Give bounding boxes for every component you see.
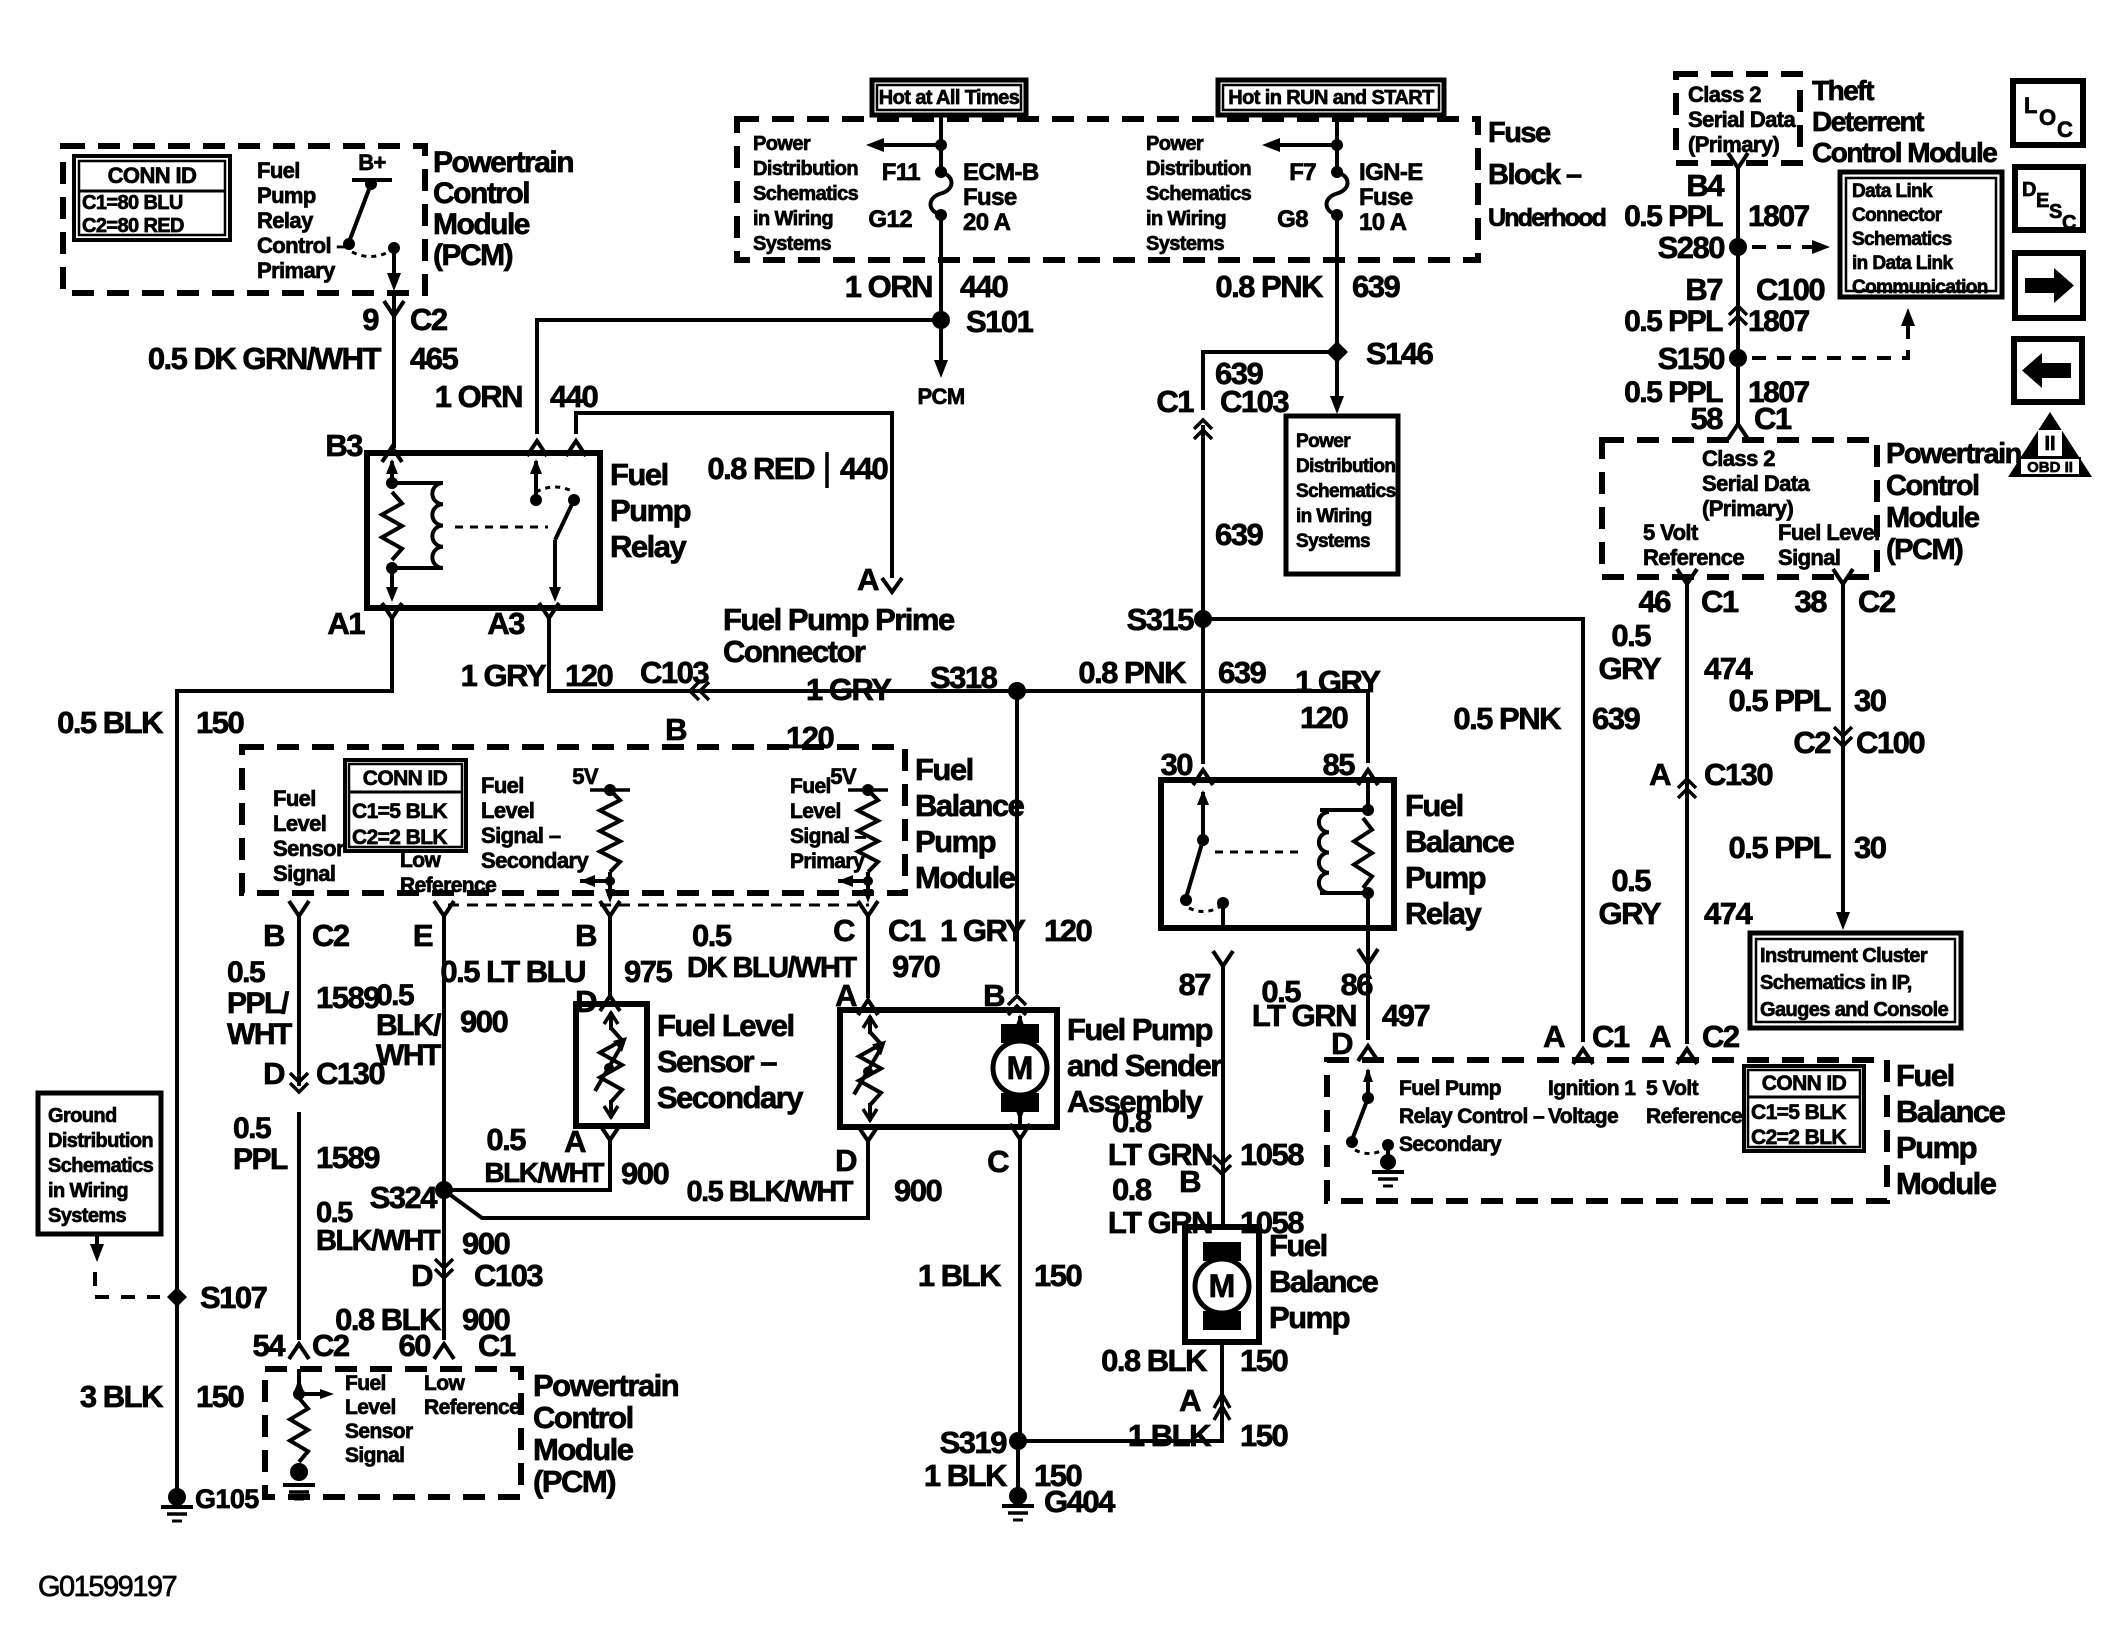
secondary switch blade [1352, 1098, 1368, 1140]
svg-text:Balance: Balance [1405, 824, 1515, 859]
svg-text:Secondary: Secondary [481, 848, 589, 873]
5V stub (primary) [848, 788, 888, 792]
svg-text:Fuel: Fuel [790, 775, 831, 798]
svg-text:1589: 1589 [316, 980, 380, 1015]
fuse IGN-E 10A [1327, 172, 1348, 215]
svg-text:Control –: Control – [257, 233, 349, 258]
svg-text:C1: C1 [1701, 584, 1739, 619]
svg-text:B7: B7 [1685, 272, 1722, 307]
wire fuel balance pump to S319 [1018, 1342, 1222, 1441]
svg-text:Balance: Balance [1896, 1094, 2006, 1129]
5V resistor tail (secondary) [608, 872, 612, 893]
relay coil top node [386, 477, 398, 489]
svg-text:Distribution: Distribution [1296, 456, 1395, 477]
ground G105 symbol [161, 1505, 193, 1509]
svg-text:0.8 RED: 0.8 RED [707, 451, 815, 486]
svg-text:3 BLK: 3 BLK [80, 1379, 164, 1414]
svg-text:Data Link: Data Link [1852, 181, 1933, 202]
wire 0.5 BLK/WHT 900 (E) [442, 916, 446, 1340]
wire 1 GRY 120 (S318 to sender B) [1015, 691, 1019, 994]
5V resistor bottom node (secondary) [605, 876, 615, 886]
svg-text:C103: C103 [474, 1258, 543, 1293]
svg-text:1589: 1589 [316, 1140, 380, 1175]
svg-text:Fuel Pump: Fuel Pump [1067, 1012, 1213, 1047]
svg-text:Serial Data: Serial Data [1702, 471, 1810, 496]
svg-text:Fuel Level: Fuel Level [1778, 520, 1880, 545]
wire S319 to G404 [1016, 1441, 1020, 1496]
svg-text:Relay: Relay [257, 208, 314, 233]
fuse ECM-B 20A [931, 172, 952, 215]
wire 0.5 PPL 30 [1841, 584, 1845, 924]
svg-text:C130: C130 [1704, 757, 1772, 792]
svg-text:10 A: 10 A [1359, 209, 1407, 236]
svg-text:O: O [2039, 105, 2056, 130]
svg-text:Low: Low [400, 849, 441, 872]
ground G105 dot [168, 1488, 186, 1506]
svg-text:(Primary): (Primary) [1688, 132, 1779, 157]
arrow left at F11 [866, 138, 884, 152]
pcm arrow right stub [299, 1392, 322, 1396]
svg-text:Level: Level [273, 811, 326, 836]
secondary switch pivot [1362, 1092, 1374, 1104]
svg-text:Pump: Pump [1269, 1300, 1350, 1335]
svg-text:0.5 PPL: 0.5 PPL [1729, 830, 1831, 865]
PCM right dashed box [1602, 440, 1877, 577]
5V resistor bottom node (primary) [863, 876, 873, 886]
5V stub (secondary) [590, 788, 630, 792]
svg-text:A1: A1 [327, 606, 365, 641]
svg-text:Schematics: Schematics [753, 183, 859, 205]
svg-text:C100: C100 [1856, 725, 1924, 760]
wire 0.5 GRY 474 [1685, 584, 1689, 1044]
relay2 coil resistor [1354, 818, 1372, 888]
svg-text:E: E [2036, 190, 2049, 212]
svg-text:Systems: Systems [1296, 531, 1370, 552]
pcm arrow up [294, 1378, 304, 1392]
connector C130 chevrons right [1678, 779, 1696, 798]
svg-text:Level: Level [790, 800, 841, 823]
svg-text:1 GRY: 1 GRY [940, 913, 1026, 948]
arrow stub left (F7) [1276, 143, 1337, 147]
signal arrow left (primary) [838, 875, 853, 887]
secondary ground symbol [1372, 1170, 1404, 1174]
connector B inline (1058) [1213, 1155, 1231, 1174]
svg-text:C1=5 BLK: C1=5 BLK [1751, 1101, 1846, 1124]
svg-text:PPL: PPL [233, 1143, 288, 1176]
svg-text:970: 970 [892, 949, 939, 984]
svg-text:Powertrain: Powertrain [433, 146, 573, 179]
svg-text:474: 474 [1704, 896, 1753, 931]
svg-text:Ignition 1: Ignition 1 [1548, 1077, 1636, 1100]
connector C100 chevrons (B7) [1729, 306, 1747, 325]
svg-text:Communication: Communication [1852, 277, 1988, 298]
svg-text:Pump: Pump [610, 493, 691, 528]
svg-text:Schematics: Schematics [1146, 183, 1252, 205]
svg-text:GRY: GRY [1598, 896, 1661, 931]
svg-text:5 Volt: 5 Volt [1646, 1077, 1699, 1100]
svg-text:C2: C2 [1702, 1019, 1739, 1054]
ground G404 dot [1009, 1487, 1027, 1505]
fuel level sensor secondary box [576, 1004, 647, 1126]
svg-text:Class 2: Class 2 [1702, 446, 1775, 471]
svg-text:(PCM): (PCM) [433, 239, 513, 272]
svg-text:Distribution: Distribution [753, 158, 858, 180]
svg-text:Fuse: Fuse [1359, 184, 1413, 211]
svg-text:440: 440 [840, 451, 887, 486]
CONN ID right header sep [1748, 1096, 1860, 1099]
svg-text:Pump: Pump [257, 183, 316, 208]
svg-text:A3: A3 [487, 606, 525, 641]
svg-text:0.5: 0.5 [376, 979, 414, 1012]
svg-text:0.5 PPL: 0.5 PPL [1624, 305, 1723, 338]
arrow down (primary pin) [863, 889, 873, 903]
svg-text:Module: Module [533, 1432, 634, 1467]
wire 0.5 DK BLU/WHT 970 [866, 916, 870, 998]
svg-text:Control: Control [1886, 470, 1979, 502]
svg-text:C1: C1 [1592, 1019, 1630, 1054]
svg-text:C130: C130 [316, 1056, 384, 1091]
svg-text:38: 38 [1795, 584, 1828, 619]
wire 0.5 PNK 639 (S315 right) [1203, 619, 1583, 1042]
connector C103 chevrons (bottom) [435, 1259, 453, 1278]
wire 639 to C103 [1203, 352, 1337, 410]
connector C103 chevrons [1194, 420, 1212, 439]
svg-text:C2=2 BLK: C2=2 BLK [352, 826, 447, 849]
connector B C2 [289, 901, 309, 916]
svg-text:0.8 PNK: 0.8 PNK [1215, 269, 1324, 304]
relay2 switch pin [1201, 792, 1205, 840]
connector B3 [382, 447, 402, 462]
wire pin 87 to fuel balance pump [1221, 966, 1225, 1227]
svg-text:D: D [1331, 1026, 1353, 1061]
fuel pump relay box [367, 453, 600, 608]
wire pin 86 down [1366, 928, 1370, 1040]
arrow stub left (F11) [880, 143, 941, 147]
svg-text:(PCM): (PCM) [1886, 534, 1963, 566]
connector A arrow 2 [1214, 1406, 1230, 1420]
svg-text:Fuel: Fuel [1269, 1228, 1327, 1263]
relay2 coil pin top [1366, 780, 1370, 810]
svg-text:A: A [857, 562, 879, 597]
pcm fuel level sensor wire [297, 1369, 301, 1394]
svg-text:PCM: PCM [917, 384, 964, 409]
svg-text:S146: S146 [1366, 336, 1434, 371]
svg-text:DK BLU/WHT: DK BLU/WHT [687, 952, 857, 984]
svg-text:D: D [835, 1143, 857, 1178]
svg-text:C100: C100 [1756, 272, 1824, 307]
wire secondary A to S324 [444, 1140, 610, 1190]
svg-text:440: 440 [960, 269, 1007, 304]
svg-text:1 BLK: 1 BLK [1128, 1418, 1212, 1453]
svg-text:30: 30 [1161, 747, 1193, 782]
svg-text:Control: Control [433, 177, 529, 210]
ground distribution schematics box [38, 1093, 161, 1234]
svg-text:A: A [1543, 1019, 1565, 1054]
svg-text:Fuel Pump: Fuel Pump [1399, 1077, 1501, 1100]
svg-text:C: C [987, 1144, 1009, 1179]
right arrow icon [2025, 278, 2054, 293]
svg-text:Pump: Pump [915, 824, 996, 859]
Hot at All Times box [872, 80, 1026, 115]
wire 0.8 RED 440 [576, 413, 892, 578]
svg-text:B4: B4 [1686, 168, 1725, 203]
svg-text:B: B [575, 918, 596, 953]
svg-text:in Wiring: in Wiring [1146, 208, 1226, 230]
svg-text:Ground: Ground [48, 1105, 117, 1127]
junction at F11 arrow [935, 139, 947, 151]
svg-text:150: 150 [196, 705, 243, 740]
svg-text:C103: C103 [1220, 384, 1289, 419]
svg-text:II: II [2044, 433, 2055, 455]
svg-text:F11: F11 [882, 159, 920, 186]
svg-text:Control: Control [533, 1400, 633, 1435]
svg-text:in Wiring: in Wiring [48, 1180, 128, 1202]
fuel pump feed stub [1018, 1016, 1022, 1026]
relay switch common arrow up [530, 459, 542, 474]
fuel pump out arrow down [1015, 1108, 1025, 1122]
svg-text:900: 900 [621, 1156, 668, 1191]
svg-text:S280: S280 [1658, 230, 1725, 265]
svg-text:Balance: Balance [915, 788, 1025, 823]
relay2 blade end dot [1180, 894, 1192, 906]
svg-text:Fuse: Fuse [963, 184, 1017, 211]
B+ bar [352, 178, 392, 182]
svg-text:and Sender: and Sender [1067, 1048, 1222, 1083]
svg-text:Sensor: Sensor [345, 1420, 413, 1443]
svg-text:Block –: Block – [1488, 159, 1582, 191]
svg-text:D: D [411, 1258, 433, 1293]
pcm node dot [293, 1388, 305, 1400]
relay switch common dot [530, 494, 542, 506]
wire S101 to fuel pump relay [537, 320, 941, 434]
svg-text:Schematics: Schematics [1852, 229, 1952, 250]
relay2 switch dashed arc [1189, 906, 1221, 912]
pcm arrow right [320, 1389, 334, 1399]
svg-text:OBD II: OBD II [2027, 459, 2073, 476]
wire B+ switch to pin 9 [392, 248, 396, 276]
B+ pin dot [365, 178, 377, 190]
svg-text:B+: B+ [358, 150, 386, 175]
svg-text:639: 639 [1215, 517, 1263, 552]
svg-text:Control Module: Control Module [1812, 137, 1997, 168]
svg-text:C2=2 BLK: C2=2 BLK [1751, 1126, 1846, 1149]
relay2 actuation dashed link [1215, 851, 1300, 854]
svg-text:C: C [2057, 117, 2073, 142]
svg-text:0.5: 0.5 [1611, 618, 1651, 653]
relay2 switch arrow up [1197, 790, 1209, 805]
svg-text:CONN ID: CONN ID [108, 163, 197, 188]
connector C103 inline [690, 682, 709, 700]
svg-text:B: B [1179, 1164, 1200, 1199]
connector A (sender) [858, 1000, 878, 1015]
relay coil pin [390, 461, 394, 483]
svg-text:474: 474 [1704, 651, 1753, 686]
svg-text:Hot at All Times: Hot at All Times [879, 87, 1020, 109]
svg-text:CONN ID: CONN ID [363, 767, 448, 790]
connector pin 85 [1358, 770, 1378, 785]
svg-text:Power: Power [1146, 133, 1204, 155]
svg-text:Fuel: Fuel [610, 457, 668, 492]
connector B4 [1728, 153, 1748, 168]
svg-text:C2: C2 [312, 918, 349, 953]
svg-text:Assembly: Assembly [1067, 1084, 1204, 1119]
svg-text:M: M [1007, 1050, 1034, 1086]
fuel level sensor primary resistor arrows [868, 1016, 872, 1034]
left arrow icon box [2014, 339, 2082, 402]
svg-text:Balance: Balance [1269, 1264, 1379, 1299]
svg-text:1 ORN: 1 ORN [435, 379, 522, 414]
svg-text:S: S [2049, 201, 2062, 223]
svg-text:Module: Module [433, 208, 530, 241]
svg-text:A: A [1649, 1019, 1671, 1054]
relay resistor [382, 492, 402, 560]
ground dist arrow down [90, 1244, 104, 1262]
relay2 coil top bar [1320, 808, 1368, 812]
connector A C1 (PNK) [1573, 1049, 1593, 1064]
svg-text:C1: C1 [1156, 384, 1194, 419]
svg-text:Underhood: Underhood [1488, 204, 1606, 232]
svg-text:0.5 PPL: 0.5 PPL [1624, 200, 1723, 233]
signal arrow stub (primary) [838, 879, 868, 883]
svg-text:Hot in RUN and START: Hot in RUN and START [1228, 87, 1434, 109]
svg-text:Power: Power [1296, 431, 1351, 452]
switch output dot [388, 242, 400, 254]
connector A arrow [1214, 1394, 1230, 1408]
svg-text:Fuel: Fuel [273, 786, 316, 811]
svg-text:0.8 PNK: 0.8 PNK [1078, 655, 1187, 690]
Hot in RUN and START box [1218, 80, 1444, 115]
svg-text:Primary: Primary [257, 258, 336, 283]
svg-text:Pump: Pump [1405, 860, 1486, 895]
svg-text:0.5 BLK/WHT: 0.5 BLK/WHT [686, 1176, 853, 1208]
arrow into instrument cluster [1836, 912, 1850, 930]
svg-text:Systems: Systems [48, 1205, 127, 1227]
svg-text:120: 120 [1300, 700, 1347, 735]
svg-text:5V: 5V [830, 764, 857, 789]
connector E [434, 901, 454, 916]
connector D (secondary sensor) [600, 996, 620, 1011]
relay actuation dashed link [455, 526, 548, 529]
relay2 coil pin bottom [1366, 893, 1370, 928]
svg-text:Fuel: Fuel [257, 158, 300, 183]
fuel pump and sender assembly box [840, 1010, 1057, 1127]
svg-text:C2: C2 [1858, 584, 1895, 619]
svg-text:1 BLK: 1 BLK [918, 1258, 1002, 1293]
5V node (secondary) [604, 784, 616, 796]
fuel balance pump motor [1203, 1242, 1241, 1261]
connector A (secondary bottom) [600, 1125, 620, 1140]
wire 0.8 RED separator tick [825, 452, 829, 488]
connector B (sender) [1008, 996, 1026, 1015]
svg-text:Voltage: Voltage [1548, 1105, 1618, 1128]
connector C130 chevrons [290, 1073, 308, 1092]
svg-text:C103: C103 [640, 655, 709, 690]
svg-text:Reference: Reference [1646, 1105, 1742, 1128]
svg-text:Signal: Signal [345, 1444, 404, 1467]
splice S315 [1194, 610, 1212, 628]
svg-text:Deterrent: Deterrent [1812, 106, 1924, 137]
data link connector schematics box [1840, 172, 2002, 297]
DESC icon box [2015, 167, 2083, 230]
wire 1 GRY 120 (A3 to relay2) [549, 618, 1368, 763]
fuel level sensor primary resistor wiper [854, 1047, 882, 1095]
svg-text:Fuel: Fuel [345, 1372, 386, 1395]
relay coil pin arrow up [386, 459, 398, 474]
5V resistor tail (primary) [866, 872, 870, 893]
svg-text:C: C [833, 913, 855, 948]
svg-text:0.5 PPL: 0.5 PPL [1729, 683, 1831, 718]
splice S101 [932, 311, 950, 329]
relay coil pin down [390, 568, 394, 590]
svg-text:60: 60 [399, 1328, 431, 1363]
fuel pump out stub [1018, 1110, 1022, 1127]
class 2 serial data dashed box [1676, 74, 1800, 163]
svg-text:BLK/: BLK/ [376, 1009, 442, 1042]
svg-text:BLK/WHT: BLK/WHT [316, 1225, 441, 1257]
fuel level sensor secondary resistor [600, 1028, 622, 1102]
wire 0.5 LT BLU 975 [608, 916, 612, 998]
wire hot-at-all-times vertical [939, 115, 943, 170]
svg-text:497: 497 [1382, 998, 1429, 1033]
fuel level sensor secondary resistor wiper [595, 1043, 623, 1091]
PCM module (top-left) dashed box [63, 146, 425, 293]
svg-text:C1: C1 [1754, 401, 1792, 436]
svg-text:Relay: Relay [610, 529, 687, 564]
splice S319 [1009, 1432, 1027, 1450]
fuel level sensor primary resistor [859, 1032, 881, 1105]
connector pin 30 [1193, 770, 1213, 785]
connector B (secondary sensor) [600, 901, 620, 916]
relay2 output dot [1217, 897, 1229, 909]
secondary ground dot [1380, 1154, 1396, 1170]
svg-text:0.8 BLK: 0.8 BLK [1101, 1343, 1208, 1378]
svg-text:Schematics: Schematics [48, 1155, 154, 1177]
pcm sensor resistor [290, 1398, 308, 1462]
svg-text:150: 150 [1034, 1258, 1081, 1293]
ground G404 symbol [1002, 1504, 1034, 1508]
splice S146 [1326, 341, 1348, 363]
connector relay top RED [566, 441, 586, 456]
svg-text:in Wiring: in Wiring [753, 208, 833, 230]
secondary switch output stub [1386, 1145, 1390, 1158]
CONN ID table (module) [345, 760, 466, 851]
splice S150 [1729, 349, 1747, 367]
secondary switch dashed arc [1355, 1148, 1386, 1154]
splice S318 [1008, 682, 1026, 700]
svg-text:C1: C1 [888, 913, 926, 948]
svg-text:1 GRY: 1 GRY [461, 658, 547, 693]
svg-text:Fuel: Fuel [915, 752, 973, 787]
svg-text:Module: Module [1886, 502, 1980, 534]
connector fuel pump prime [882, 578, 902, 592]
svg-text:Reference: Reference [400, 874, 496, 897]
fuse block underhood dashed box [737, 119, 1478, 260]
relay coil [432, 483, 443, 568]
splice S324 [435, 1181, 453, 1199]
ground dist dash vert [93, 1272, 97, 1286]
relay2 coil bottom node [1362, 887, 1374, 899]
instrument cluster schematics box [1750, 933, 1961, 1028]
relay2 switch blade [1186, 840, 1203, 898]
svg-text:E: E [413, 918, 433, 953]
secondary switch output dot [1382, 1139, 1394, 1151]
arrow down to pin 9 [387, 273, 401, 291]
svg-text:Sensor: Sensor [273, 836, 345, 861]
svg-text:D: D [2022, 179, 2036, 201]
svg-text:Level: Level [481, 798, 534, 823]
svg-text:G404: G404 [1044, 1484, 1116, 1519]
wire 1 ORN 440 below fuse [939, 215, 943, 362]
